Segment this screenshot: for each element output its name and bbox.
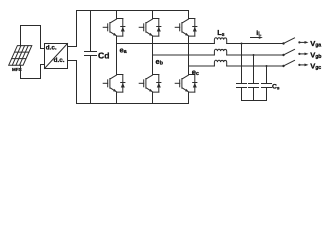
- wire: leg b verticals: [152, 11, 154, 104]
- switch phase a: [282, 38, 300, 45]
- wire: PV negative terminal loop to converter input: [21, 65, 45, 79]
- current arrow iL: [251, 36, 263, 39]
- svg-text:ea: ea: [120, 45, 127, 55]
- wire: leg c verticals: [188, 11, 190, 104]
- voltage arrow Vgc: [299, 64, 308, 67]
- svg-text:eb: eb: [156, 57, 163, 67]
- inductor Ls phase a: [214, 38, 226, 44]
- wire: phase c output line: [189, 65, 284, 67]
- wire: phase a output line: [117, 43, 284, 45]
- capacitor Cs phase a: [237, 44, 247, 101]
- svg-text:iL: iL: [256, 30, 261, 38]
- IGBT S6 (phase b bottom) with antiparallel diode: [139, 75, 161, 93]
- svg-text:Cs: Cs: [272, 84, 280, 92]
- svg-text:Vgb: Vgb: [310, 50, 321, 60]
- junction node phase c / Cs tap: [266, 65, 268, 67]
- voltage arrow Vgb: [299, 53, 308, 56]
- IGBT S1 (phase a top) with antiparallel diode: [103, 19, 125, 37]
- IGBT S5 (phase c top) with antiparallel diode: [175, 19, 197, 37]
- junction node phase b / Cs tap: [253, 54, 255, 56]
- wire: bottom DC bus: [77, 103, 189, 105]
- switch phase c: [282, 60, 300, 67]
- svg-text:Cd: Cd: [98, 50, 109, 60]
- switch phase b: [282, 49, 300, 56]
- voltage arrow Vga: [299, 41, 308, 44]
- capacitor Cs phase c: [262, 66, 272, 101]
- svg-text:Vga: Vga: [310, 39, 321, 49]
- wire: converter output +: [68, 11, 77, 47]
- wire: capacitor bank common bus: [242, 100, 267, 102]
- PV array panel: [9, 46, 32, 66]
- IGBT S2 (phase c bottom) with antiparallel diode: [175, 75, 197, 93]
- wire: top DC bus: [77, 10, 189, 12]
- wire: leg a verticals: [116, 11, 118, 104]
- IGBT S3 (phase b top) with antiparallel diode: [139, 19, 161, 37]
- inductor Ls phase c: [214, 60, 226, 66]
- svg-text:d.c.: d.c.: [46, 45, 57, 52]
- svg-text:d.c.: d.c.: [54, 57, 65, 64]
- capacitor Cd: [85, 11, 97, 104]
- svg-text:ec: ec: [192, 67, 199, 77]
- capacitor Cs phase b: [249, 55, 259, 101]
- wire: PV positive terminal loop to converter input: [21, 26, 45, 49]
- svg-text:Vgc: Vgc: [310, 61, 321, 71]
- svg-text:Ls: Ls: [217, 28, 225, 38]
- IGBT S4 (phase a bottom) with antiparallel diode: [103, 75, 125, 93]
- wire: phase b output line: [153, 54, 284, 56]
- inductor Ls phase b: [214, 49, 226, 55]
- dc-dc converter block U1: [45, 44, 68, 69]
- junction node phase a / Cs tap: [241, 43, 243, 45]
- wire: converter output -: [68, 61, 77, 104]
